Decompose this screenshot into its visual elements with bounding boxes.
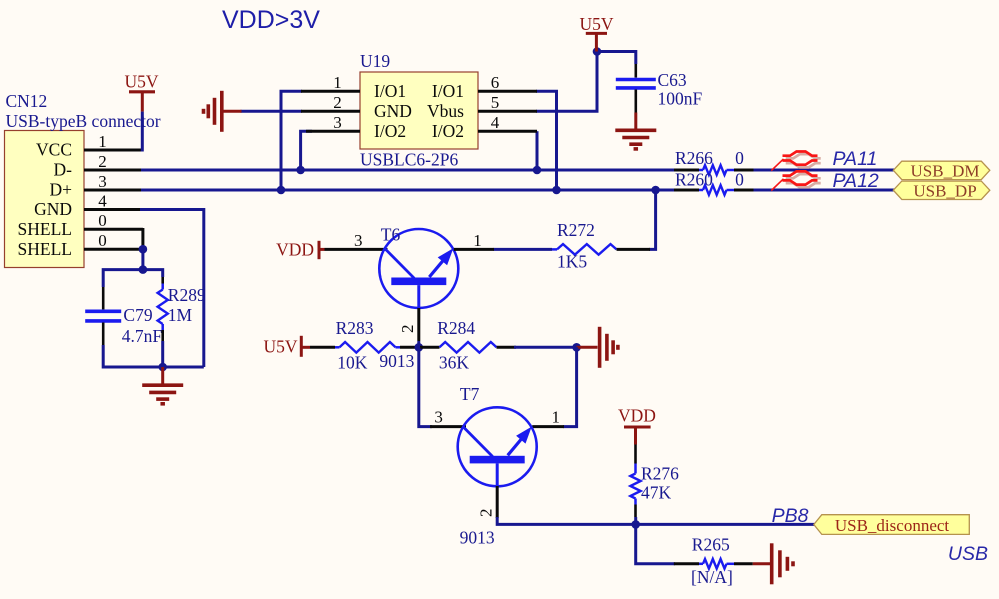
transistor T7 9013 xyxy=(458,407,537,486)
R289 labels xyxy=(168,285,206,325)
T6 pin 2 wire xyxy=(417,308,420,349)
CN12 pin 4 wire (GND) xyxy=(84,208,140,211)
CN12 pin SHELL wires xyxy=(84,228,144,249)
wire SHELL to C79/R289 xyxy=(141,249,144,271)
junction U19 pin4 / D- xyxy=(533,166,542,175)
svg-text:D+: D+ xyxy=(49,180,72,200)
T7 labels xyxy=(460,384,495,548)
svg-text:USB: USB xyxy=(948,543,988,565)
power VDD (T6 base) xyxy=(276,240,324,260)
port USB_disconnect xyxy=(814,515,970,535)
wire U19 pin5 Vbus to U5V xyxy=(536,52,597,112)
wire net USB_disconnect (T7 pin2 to port) xyxy=(497,517,814,524)
ground GND (right of R284) xyxy=(577,327,618,368)
svg-text:R266: R266 xyxy=(675,148,713,168)
resistor R272 1K5 xyxy=(494,244,651,255)
junction U19 pin3 / D- xyxy=(296,166,305,175)
svg-text:USB_DM: USB_DM xyxy=(911,161,980,180)
svg-text:I/O1: I/O1 xyxy=(432,81,464,101)
U19 pin 2 xyxy=(301,93,360,112)
T6 labels xyxy=(379,225,414,372)
transistor T6 9013 xyxy=(379,229,458,308)
CN12 pin 0 number xyxy=(98,211,107,230)
U19 pin 1 xyxy=(301,73,360,92)
wire R284 to ground xyxy=(514,346,578,349)
resistor R265 [N/A] xyxy=(674,559,753,569)
T7 pin 2 number xyxy=(477,509,496,518)
wire T6 pin2 to T7 pin3 xyxy=(419,347,432,426)
svg-text:USB-typeB connector: USB-typeB connector xyxy=(6,111,161,131)
svg-text:U5V: U5V xyxy=(579,14,613,34)
CN12 pin 1 number xyxy=(98,132,107,151)
svg-text:1: 1 xyxy=(98,132,107,151)
svg-text:VCC: VCC xyxy=(36,140,72,160)
svg-text:4: 4 xyxy=(491,113,500,132)
wire U5V junction to C63 xyxy=(597,52,636,65)
svg-text:R276: R276 xyxy=(641,464,679,484)
svg-text:U5V: U5V xyxy=(263,337,297,357)
svg-text:1M: 1M xyxy=(168,305,193,325)
svg-text:USBLC6-2P6: USBLC6-2P6 xyxy=(360,150,458,170)
svg-text:R272: R272 xyxy=(557,220,595,240)
junction U19 pin6 / D+ xyxy=(552,186,561,195)
svg-text:USB_DP: USB_DP xyxy=(913,181,976,200)
svg-text:9013: 9013 xyxy=(379,351,414,371)
wire U19 pin1 to D+ xyxy=(281,91,302,190)
svg-text:I/O1: I/O1 xyxy=(374,81,406,101)
CN12 pin 2 number xyxy=(98,152,107,171)
svg-text:PA12: PA12 xyxy=(833,170,879,192)
junction ground node xyxy=(158,363,167,372)
junction R276 / R265 / PB8 xyxy=(631,520,640,529)
T6 pin 2 number xyxy=(398,325,417,334)
R283 labels xyxy=(336,318,374,373)
junction Vbus / U5V / C63 xyxy=(593,47,602,56)
svg-text:3: 3 xyxy=(354,231,363,250)
svg-text:4.7nF: 4.7nF xyxy=(122,326,163,346)
resistor R289 1M xyxy=(158,277,168,368)
svg-text:1: 1 xyxy=(473,231,482,250)
wire T7 pin1 to R284 junction xyxy=(563,347,577,426)
power U5V (CN12 VCC) xyxy=(124,72,158,112)
svg-text:0: 0 xyxy=(735,148,744,168)
IC U19 USBLC6-2P6 body xyxy=(360,51,478,170)
svg-text:3: 3 xyxy=(434,408,443,427)
junction R284 / T7 pin1 riser xyxy=(572,343,581,352)
U19 pin 4 xyxy=(478,113,537,132)
svg-text:10K: 10K xyxy=(337,353,368,373)
resistor R283 10K xyxy=(310,342,418,353)
svg-text:U19: U19 xyxy=(360,51,390,71)
junction C79/R289 top xyxy=(139,265,148,274)
resistor R284 36K xyxy=(420,342,516,353)
CN12 pin 4 number xyxy=(98,191,107,210)
svg-text:C63: C63 xyxy=(658,70,687,90)
resistor R276 47K xyxy=(630,445,640,525)
C63 labels xyxy=(658,70,703,109)
svg-text:R289: R289 xyxy=(168,285,206,305)
ground GND (left of U19) xyxy=(204,91,242,132)
wire C79/R289 top rail xyxy=(103,270,163,287)
connector CN12 body xyxy=(5,91,161,268)
junction T6 base / R283 / R284 xyxy=(415,343,424,352)
wire U19 pin3 to D- xyxy=(301,131,312,170)
svg-text:U5V: U5V xyxy=(124,72,158,92)
ground below C63 xyxy=(615,113,656,149)
wire CN12 GND down xyxy=(140,210,204,368)
capacitor C63 100nF xyxy=(616,64,656,113)
CN12 pin 0 number xyxy=(98,231,107,250)
svg-text:GND: GND xyxy=(34,199,72,219)
R284 labels xyxy=(437,318,475,373)
svg-text:USB_disconnect: USB_disconnect xyxy=(835,516,950,535)
CN12 pin 3 wire (D+) xyxy=(84,189,141,192)
T7 pin 3 number xyxy=(434,408,443,427)
svg-text:36K: 36K xyxy=(439,353,470,373)
svg-text:3: 3 xyxy=(333,113,342,132)
T6 pin 1 number xyxy=(473,231,482,250)
wire U19 pin2 to ground xyxy=(241,110,303,113)
svg-text:PB8: PB8 xyxy=(772,505,809,527)
svg-text:R260: R260 xyxy=(675,169,713,189)
svg-text:T6: T6 xyxy=(381,225,401,245)
svg-text:R284: R284 xyxy=(437,318,475,338)
T6 pin 3 number xyxy=(354,231,363,250)
wire U19 pin4 to D- xyxy=(536,131,539,170)
ground GND (right of R265) xyxy=(753,543,793,584)
svg-text:R265: R265 xyxy=(692,535,730,555)
junction U19 pin1 / D+ xyxy=(277,186,286,195)
wire C79/R289 bottom rail xyxy=(103,345,204,367)
svg-text:2: 2 xyxy=(398,325,417,334)
svg-text:2: 2 xyxy=(333,93,342,112)
svg-text:SHELL: SHELL xyxy=(18,219,72,239)
svg-text:47K: 47K xyxy=(641,483,672,503)
junction D+ / R272 xyxy=(651,186,660,195)
wire CN12 VCC to U5V xyxy=(141,112,144,152)
svg-text:0: 0 xyxy=(735,169,744,189)
svg-text:[N/A]: [N/A] xyxy=(691,567,733,587)
svg-text:C79: C79 xyxy=(123,305,152,325)
wire net PA12 (R260 to port) xyxy=(753,189,896,192)
svg-text:VDD: VDD xyxy=(276,240,314,260)
sheet name USB xyxy=(948,543,988,565)
capacitor C79 4.7nF xyxy=(85,287,121,345)
U19 pin 3 xyxy=(306,113,360,132)
svg-text:0: 0 xyxy=(98,231,107,250)
svg-text:R283: R283 xyxy=(336,318,374,338)
wire net USB_DP (D+ to R260) xyxy=(141,189,675,192)
T7 pin 1 number xyxy=(552,407,561,426)
R265 labels xyxy=(691,535,733,588)
T7 pin 3 wire xyxy=(430,425,466,428)
svg-text:SHELL: SHELL xyxy=(18,239,72,259)
svg-text:2: 2 xyxy=(477,509,496,518)
svg-text:1K5: 1K5 xyxy=(557,252,587,272)
power U5V (R283) xyxy=(263,336,310,357)
R272 labels xyxy=(557,220,595,272)
CN12 pin 1 wire (VCC) xyxy=(84,149,142,152)
svg-text:VDD>3V: VDD>3V xyxy=(222,6,320,34)
T7 pin 1 wire xyxy=(532,425,564,428)
svg-text:5: 5 xyxy=(491,93,500,112)
svg-text:6: 6 xyxy=(491,73,500,92)
svg-text:I/O2: I/O2 xyxy=(374,121,406,141)
net label PA12 xyxy=(833,170,879,192)
R276 labels xyxy=(641,464,679,503)
resistor R266 0 xyxy=(674,165,754,175)
svg-text:Vbus: Vbus xyxy=(427,101,464,121)
svg-text:3: 3 xyxy=(98,172,107,191)
T6 pin 1 wire xyxy=(454,248,494,251)
svg-text:GND: GND xyxy=(374,101,412,121)
R260 labels xyxy=(675,169,744,189)
svg-text:D-: D- xyxy=(54,160,73,180)
port USB_DP xyxy=(893,181,990,200)
differential pair directive (PA12) xyxy=(771,171,820,190)
wire VDD to T6 pin3 xyxy=(325,248,388,251)
svg-text:I/O2: I/O2 xyxy=(432,121,464,141)
svg-text:T7: T7 xyxy=(460,384,480,404)
wire net USB_DM (D- to R266) xyxy=(141,169,675,172)
T7 pin 2 wire xyxy=(496,486,499,518)
net label PB8 xyxy=(772,505,809,527)
C79 labels xyxy=(122,305,163,346)
svg-text:PA11: PA11 xyxy=(833,148,878,170)
CN12 pin 3 number xyxy=(98,172,107,191)
wire R272 to D+ xyxy=(649,190,656,249)
CN12 pin 2 wire (D-) xyxy=(84,169,141,172)
U19 pin 6 xyxy=(478,73,537,92)
svg-text:1: 1 xyxy=(552,407,561,426)
junction SHELL pins xyxy=(139,245,148,254)
svg-text:4: 4 xyxy=(98,191,107,210)
svg-text:CN12: CN12 xyxy=(6,91,48,111)
net label PA11 xyxy=(833,148,878,170)
differential pair directive (PA11) xyxy=(771,152,820,171)
wire net PA11 (R266 to port) xyxy=(753,169,896,172)
ground GND (below R289) xyxy=(142,367,183,404)
svg-text:1: 1 xyxy=(333,73,342,92)
power U5V (top right) xyxy=(579,14,613,52)
svg-text:VDD: VDD xyxy=(618,406,656,426)
svg-text:0: 0 xyxy=(98,211,107,230)
port USB_DM xyxy=(893,161,990,180)
wire PB8 junction to R265 xyxy=(636,524,675,563)
svg-text:2: 2 xyxy=(98,152,107,171)
svg-text:9013: 9013 xyxy=(460,528,495,548)
U19 pin 5 xyxy=(478,93,537,112)
svg-text:100nF: 100nF xyxy=(658,89,703,109)
wire U19 pin6 to D+ xyxy=(536,91,557,190)
power VDD (R276) xyxy=(618,406,656,445)
R266 labels xyxy=(675,148,744,168)
resistor R260 0 xyxy=(674,185,754,195)
